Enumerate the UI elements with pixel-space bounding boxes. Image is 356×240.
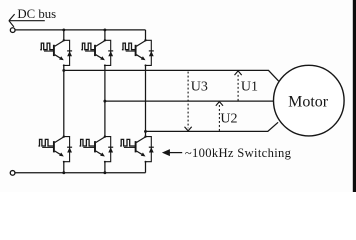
U1 dashed arrow (middle line up to top line)	[237, 73, 239, 100]
transistor Q6 body	[136, 137, 146, 155]
U3 dashed arrow (top line down to bottom line)	[187, 72, 189, 129]
diode of Q4	[67, 146, 72, 148]
DC- terminal	[10, 171, 15, 176]
transistor Q4 gate pulse waveform	[38, 139, 54, 146]
svg-text:U1: U1	[241, 80, 258, 95]
transistor Q5 body	[95, 137, 105, 155]
svg-text:~100kHz Switching: ~100kHz Switching	[185, 146, 292, 160]
wire: leg 3 collector drop	[145, 30, 147, 40]
junction dots of Q2	[104, 39, 106, 41]
wire: leg 3 phase vertical	[145, 65, 147, 136]
node: phase3 tap	[144, 130, 147, 133]
diode of Q3	[149, 50, 154, 52]
switching-frequency arrow	[162, 149, 170, 156]
transistor Q3 body	[136, 41, 146, 59]
transistor Q4 freewheel diode branch wire	[64, 137, 70, 162]
motor M	[274, 65, 345, 136]
wire: bottom DC bus rail	[15, 172, 145, 174]
diode of Q1	[67, 50, 72, 52]
node: top bus junction leg2	[103, 28, 106, 31]
wire: top DC bus rail	[15, 29, 145, 31]
transistor Q3 base/gate lead	[126, 50, 136, 52]
transistor Q6 gate pulse waveform	[120, 139, 136, 146]
wire: phase 1 output line (top)	[64, 70, 279, 81]
transistor Q2 gate pulse waveform	[81, 43, 95, 50]
wire: leg 1 phase vertical	[63, 65, 65, 136]
transistor Q1 gate pulse waveform	[40, 43, 54, 50]
wire: phase 2 output line (middle)	[105, 100, 275, 102]
node: top bus junction leg1	[62, 28, 65, 31]
node: bottom bus junction leg2	[103, 171, 106, 174]
diode of Q6	[149, 146, 154, 148]
svg-text:U3: U3	[191, 80, 208, 95]
wire: leg 2 collector drop	[104, 30, 106, 40]
transistor Q2 freewheel diode branch wire	[105, 40, 111, 65]
junction dots of Q5	[104, 135, 106, 137]
transistor Q1 freewheel diode branch wire	[64, 40, 70, 65]
junction dots of Q1	[63, 39, 65, 41]
transistor Q1 base/gate lead	[44, 50, 54, 52]
U2 dashed arrow (bottom line up to middle line)	[218, 104, 220, 131]
transistor Q4 base/gate lead	[42, 146, 54, 148]
transistor Q5 base/gate lead	[83, 146, 95, 148]
diode of Q2	[108, 50, 113, 52]
transistor Q3 freewheel diode branch wire	[146, 40, 152, 65]
junction dots of Q3	[144, 39, 146, 41]
transistor Q6 base/gate lead	[124, 146, 136, 148]
right border bar	[353, 0, 356, 192]
transistor Q3 gate pulse waveform	[122, 43, 136, 50]
junction dots of Q4	[63, 135, 65, 137]
transistor Q5 gate pulse waveform	[80, 139, 96, 146]
transistor Q1 body	[54, 41, 64, 59]
node: phase1 tap	[62, 69, 65, 72]
wire: leg 3 bottom emitter drop	[145, 162, 147, 173]
transistor Q4 body	[54, 137, 64, 155]
wire: phase 3 output line (bottom)	[146, 122, 279, 131]
wire: leg 1 collector drop	[63, 30, 65, 40]
DC+ terminal	[10, 28, 15, 33]
transistor Q2 base/gate lead	[85, 50, 95, 52]
wire: leg 2 bottom emitter drop	[104, 162, 106, 173]
diode of Q5	[108, 146, 113, 148]
node: bottom bus junction leg1	[62, 171, 65, 174]
wire: leg 2 phase vertical	[104, 65, 106, 136]
node: phase2 tap	[103, 100, 106, 103]
transistor Q5 freewheel diode branch wire	[105, 137, 111, 162]
transistor Q6 freewheel diode branch wire	[146, 137, 152, 162]
junction dots of Q6	[144, 135, 146, 137]
DC bus arrow	[9, 14, 45, 27]
svg-text:DC bus: DC bus	[17, 7, 56, 21]
wire: leg 1 bottom emitter drop	[63, 162, 65, 173]
transistor Q2 body	[95, 41, 105, 59]
svg-text:U2: U2	[220, 112, 237, 127]
svg-text:Motor: Motor	[288, 94, 329, 111]
